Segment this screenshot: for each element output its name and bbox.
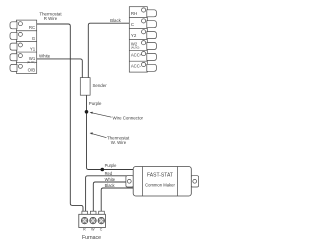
thermostat left terminal block body: [16, 20, 36, 73]
FAST-STAT left mounting ear: [126, 176, 134, 187]
thermostat W wire callout arrow: [90, 132, 107, 137]
svg-text:RH: RH: [131, 11, 137, 16]
furnace screw R: [81, 217, 88, 224]
wire black wire (FAST-STAT to furnace C): [101, 188, 133, 212]
furnace screw C: [98, 217, 105, 224]
svg-text:ACC+: ACC+: [131, 53, 143, 58]
furnace terminal strip body: [79, 214, 106, 227]
wire black wire (C terminal to Sender top-right): [88, 23, 129, 78]
FAST-STAT right mounting ear: [191, 176, 199, 187]
right block screw holes: [142, 8, 146, 67]
wire red wire (FAST-STAT to furnace R): [86, 176, 134, 212]
svg-text:W. Wire: W. Wire: [111, 140, 127, 145]
svg-text:ACC-: ACC-: [131, 63, 142, 68]
svg-text:White: White: [105, 177, 116, 182]
furnace terminal strip tabs: [82, 211, 104, 214]
wire thermostat R wire (RC to furnace R): [37, 24, 83, 212]
svg-text:C: C: [131, 22, 134, 27]
svg-text:R Wire: R Wire: [44, 16, 58, 21]
svg-text:C: C: [100, 228, 103, 232]
right block wire-release tabs: [147, 10, 157, 72]
svg-text:Purple: Purple: [105, 163, 118, 168]
svg-text:White: White: [39, 54, 51, 59]
splice junction dot on purple wire: [101, 168, 105, 172]
svg-text:Wire Connector: Wire Connector: [113, 115, 144, 120]
svg-text:W: W: [91, 228, 95, 232]
wire white wire (FAST-STAT to furnace W): [93, 182, 133, 212]
svg-text:Black: Black: [110, 18, 122, 23]
svg-text:Common Maker: Common Maker: [145, 183, 175, 188]
wire connector callout arrow: [90, 112, 112, 118]
svg-text:R: R: [83, 228, 86, 232]
svg-text:(AUX1): (AUX1): [27, 60, 36, 64]
svg-text:Y2: Y2: [131, 33, 137, 38]
svg-text:RC: RC: [29, 25, 35, 30]
svg-text:G: G: [32, 36, 36, 41]
wire purple wire (Sender bottom to FAST-STAT): [87, 95, 134, 169]
wire thermostat W white wire (W1 to Sender top-left): [37, 59, 83, 79]
thermostat right terminal block body: [129, 7, 147, 72]
svg-text:O/B: O/B: [28, 67, 36, 72]
svg-text:(AUX2): (AUX2): [131, 46, 140, 50]
svg-text:Y1: Y1: [30, 47, 36, 52]
wire connector junction dot: [85, 110, 89, 114]
left block screw holes: [18, 22, 22, 69]
left block wire-release tabs: [10, 22, 17, 72]
furnace screw W: [90, 217, 97, 224]
svg-text:Purple: Purple: [89, 101, 102, 106]
svg-text:Black: Black: [105, 183, 116, 188]
FAST-STAT common maker housing: [133, 167, 191, 197]
sender unit: [80, 78, 90, 96]
svg-text:Furnace: Furnace: [82, 235, 101, 241]
svg-text:Red: Red: [105, 171, 113, 176]
svg-text:Sender: Sender: [93, 83, 108, 88]
svg-text:FAST-STAT: FAST-STAT: [147, 173, 173, 179]
